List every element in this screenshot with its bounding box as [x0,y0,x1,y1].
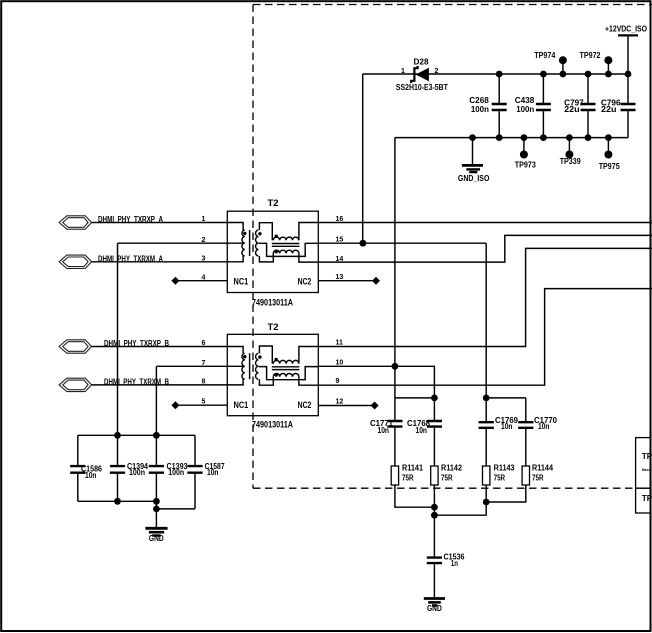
svg-text:10: 10 [336,360,344,367]
svg-text:TP972: TP972 [580,51,601,60]
wire pin 14 with jog to edge [318,235,652,262]
svg-text:NC2: NC2 [298,400,312,411]
svg-text:D28: D28 [414,58,430,67]
junction wire 10 x=395 [392,363,399,370]
junction bottom rail x=588 [585,134,592,141]
junction bottom rail x=524 [521,134,528,141]
T2 top secondary top lead to CMC top [259,223,272,241]
T2 top CMC core lines [272,244,300,247]
resistor R1144 [522,466,529,485]
svg-text:1: 1 [401,68,405,75]
junction top rail x=499 [496,71,503,78]
resistor R1142 [431,466,438,485]
T2 top CMC bottom phase dot [275,250,278,253]
svg-text:10n: 10n [85,471,97,480]
svg-text:C438: C438 [515,96,535,105]
wire pin 1 [92,222,228,224]
T2 top CMC top winding [273,237,299,240]
svg-text:NC1: NC1 [234,277,249,288]
T2 bottom center tap path to pin 10 [259,367,319,380]
svg-text:6: 6 [202,340,206,347]
wire top rail +12V [363,73,628,75]
wire pin 5 no-connect [175,404,227,406]
wire pin 8 [92,384,228,386]
wire R1141 bottom to node [395,485,435,507]
wire riser diode pin1 to wire 15 [362,74,364,243]
testpoint TP972 stub and pad [607,60,609,74]
svg-text:9: 9 [336,378,340,385]
T2 bottom CMC bottom phase dot [275,373,278,376]
junction bottom rail x=499 [496,134,503,141]
svg-text:12: 12 [336,399,344,406]
capacitor C1771 [394,398,396,466]
T2 bottom primary winding leads [227,347,243,385]
T2 bottom core line [249,353,251,379]
wire pin 4 no-connect [175,280,227,282]
wire C1536 to ground [433,564,435,597]
junction x=486 y=502 [483,499,490,506]
junction cap bank bottom rail x=156 upper [153,498,160,505]
junction bottom rail x=569 [566,134,573,141]
svg-text:1n: 1n [451,559,458,568]
svg-text:SS2H10-E3-5BT: SS2H10-E3-5BT [396,83,448,92]
junction cap bank bottom rail x=156 lower [153,506,160,513]
svg-text:749013011A: 749013011A [252,298,293,309]
wire R1142 bottom through node to C1536 [433,485,435,557]
capacitor C1586 [77,435,79,501]
testpoint TP975 stub and pad [607,138,609,155]
T2 bottom CMC top right lead to pin 11 [299,347,318,364]
junction termination rail x=434 [431,395,438,402]
capacitor C797 [587,74,589,138]
wire bottom rail GND_ISO [395,137,628,139]
svg-text:100n: 100n [168,468,184,477]
svg-text:R1144: R1144 [532,463,553,472]
junction top rail x=563 [560,71,567,78]
wire termination rail right [486,397,526,399]
transformer T2 (bottom) body [227,334,318,415]
junction x=434 y=515 [431,512,438,519]
junction bottom rail x=608 [605,134,612,141]
svg-text:75R: 75R [532,473,544,482]
resistor R1143 [483,466,490,485]
wire pin 12 no-connect [318,405,374,407]
junction termination rail x=486 [483,395,490,402]
svg-text:GND: GND [427,604,442,613]
node DHMI_PHY_TXRXP_B hexagon connector [59,340,92,353]
T2 top CMC bottom winding [273,250,299,253]
node DHMI_PHY_TXRXM_A hexagon connector [59,255,92,268]
testpoint TP973 stub and pad [523,138,525,155]
wire R1144 bottom to node [486,485,526,502]
T2 top center tap path to pin 15 [259,243,319,256]
svg-text:75R: 75R [402,473,414,482]
T2 bottom CMC bottom right lead to pin 9 [299,377,318,386]
T2 bottom CMC top phase dot [275,358,278,361]
testpoint TP974 stub and pad [562,60,564,74]
T2 bottom CMC top winding [273,360,299,363]
junction bottom rail x=472 [469,134,476,141]
diode D28 triangle [416,68,429,82]
no-connect diamond pin 5 [171,401,179,409]
svg-text:75R: 75R [494,473,506,482]
svg-text:1: 1 [202,216,206,223]
T2 top CMC top phase dot [275,235,278,238]
wire pin 16 to edge [318,222,652,224]
junction wire 15 x=363 [360,240,367,247]
node DHMI_PHY_TXRXM_B hexagon connector [59,378,92,391]
junction top rail x=608 [605,71,612,78]
svg-text:22u: 22u [564,105,580,114]
svg-text:TP9: TP9 [642,452,652,461]
wire pin 7 [156,365,227,367]
T2 top secondary phase dot [258,232,261,235]
wire pin 15 [318,242,486,244]
svg-text:4: 4 [202,274,206,281]
svg-text:2: 2 [202,237,206,244]
wire pin 9 riser to edge [318,289,652,386]
wire +12VDC_ISO stem [627,35,629,74]
svg-text:TP973: TP973 [515,160,536,169]
power symbol +12VDC_ISO bar [618,34,638,36]
svg-text:100n: 100n [471,105,489,114]
wire R1143 bottom to node [434,485,486,515]
svg-text:2: 2 [435,68,439,75]
wire riser pin 7 to cap bank [155,366,157,435]
svg-text:3: 3 [202,256,206,263]
T2 top CMC top right lead to pin 16 [299,223,318,241]
junction top rail x=588 [585,71,592,78]
svg-text:T2: T2 [268,198,279,209]
svg-text:75R: 75R [441,473,453,482]
svg-text:T2: T2 [268,322,279,333]
svg-text:TP975: TP975 [599,162,620,171]
svg-text:7: 7 [202,360,206,367]
capacitor C1393 [155,435,157,501]
wire pin 10 [318,366,434,398]
T2 bottom secondary top lead to CMC top [259,346,272,364]
svg-text:749013011A: 749013011A [252,420,293,431]
resistor R1141 [391,466,398,485]
T2 bottom secondary phase dot [258,355,261,358]
diode D28 schottky cathode bar [411,66,417,83]
T2 bottom primary winding coil [242,353,245,379]
svg-text:10n: 10n [416,426,428,435]
svg-text:R1143: R1143 [494,463,515,472]
wire riser pin 2 to cap bank [117,243,119,435]
node DHMI_PHY_TXRXP_A hexagon connector [59,216,92,229]
wire pin 2 [118,242,228,244]
junction x=434 y=507 [431,504,438,511]
isolation dashed box [253,5,652,489]
svg-text:GND_ISO: GND_ISO [458,174,490,183]
connector box divider [636,487,651,489]
transformer T2 (top) body [227,211,318,292]
no-connect diamond pin 13 [372,277,380,285]
T2 top primary winding coil [242,230,245,256]
T2 bottom secondary winding coil [256,353,259,379]
T2 top secondary bottom lead [259,253,273,262]
T2 top CMC bottom right lead to pin 14 [299,253,318,262]
svg-text:100n: 100n [129,468,145,477]
T2 top primary phase dot [243,232,246,235]
junction cap bank top rail x=156 [153,432,160,439]
junction top rail x=543 [540,71,547,78]
svg-text:TP974: TP974 [534,51,555,60]
wire pin 3 [92,261,228,263]
capacitor C1394 [117,435,119,501]
svg-text:Max3: Max3 [642,468,651,472]
svg-text:NC2: NC2 [298,277,312,288]
svg-text:+12VDC_ISO: +12VDC_ISO [605,24,647,33]
capacitor C1587 [194,435,196,509]
wire termination rail left [395,397,435,399]
T2 bottom primary phase dot [243,355,246,358]
wire pin 6 [92,346,228,348]
junction cap bank top rail x=117 [114,432,121,439]
svg-text:8: 8 [202,379,206,386]
svg-text:5: 5 [202,399,206,406]
wire riser 15 down to termination rail [485,243,487,398]
svg-text:10n: 10n [207,468,219,477]
connector box (right edge) [636,438,651,513]
capacitor C1536 [427,558,442,564]
capacitor C438 [542,74,544,138]
svg-text:TP339: TP339 [560,157,581,166]
svg-text:11: 11 [336,340,344,347]
svg-text:22u: 22u [601,105,617,114]
testpoint TP339 stub and pad [568,138,570,155]
svg-text:TP9: TP9 [642,494,652,503]
capacitor C1768 [433,398,435,466]
junction bottom rail x=543 [540,134,547,141]
junction top rail x=628 [625,71,632,78]
no-connect diamond pin 4 [171,277,179,285]
wire pin 13 no-connect [318,280,376,282]
ground GND (cap bank) [155,509,157,527]
svg-text:10n: 10n [538,422,550,431]
svg-text:R1142: R1142 [441,463,462,472]
wire cap bank top rail [78,434,195,436]
capacitor C1770 [525,398,527,466]
wire riser GND_ISO rail down to wire 10 and termination rail [394,138,396,398]
svg-text:GND: GND [149,534,164,543]
T2 bottom CMC bottom winding [273,374,299,377]
T2 bottom secondary bottom lead [259,377,273,386]
capacitor C1769 [485,398,487,466]
svg-text:R1141: R1141 [402,463,423,472]
ground GND_ISO [472,138,474,165]
capacitor C268 [498,74,500,138]
wire pin 11 riser to edge [318,248,652,346]
svg-text:100n: 100n [516,105,534,114]
no-connect diamond pin 12 [371,402,379,410]
T2 bottom CMC core lines [272,367,300,370]
ground GND (C1536) [424,597,445,600]
T2 top secondary winding coil [256,230,259,256]
svg-text:C268: C268 [469,96,489,105]
junction cap bank bottom rail x=117 [114,498,121,505]
T2 top core line [249,230,251,256]
svg-text:NC1: NC1 [234,400,249,411]
svg-text:10n: 10n [501,422,513,431]
capacitor C796 [627,74,629,138]
T2 top primary winding leads [227,223,243,262]
wire cap bank bottom rail [78,501,195,509]
